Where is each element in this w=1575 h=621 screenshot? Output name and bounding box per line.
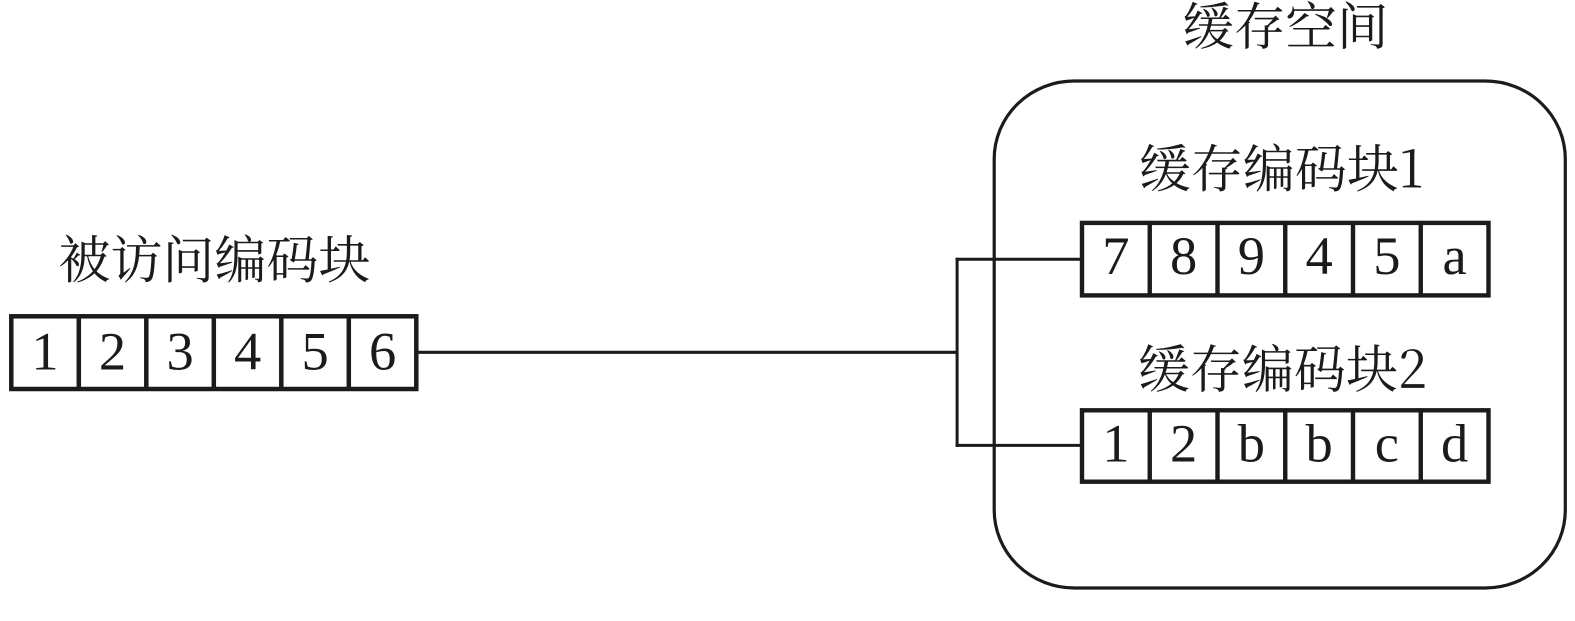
- accessed coding block row (cells): [11, 316, 416, 389]
- cell chars 7 8 9 4 5 a: [1102, 225, 1466, 286]
- svg-text:5: 5: [301, 321, 328, 382]
- svg-text:c: c: [1375, 413, 1399, 474]
- label: cache coding block 2 (缓存编码块2): [1140, 344, 1424, 392]
- svg-text:3: 3: [166, 321, 193, 382]
- svg-text:7: 7: [1102, 225, 1129, 286]
- svg-text:9: 9: [1238, 225, 1265, 286]
- label: cache coding block 1 (缓存编码块1): [1141, 143, 1421, 191]
- wire: from accessed block to bracket: [416, 351, 959, 354]
- svg-text:4: 4: [1305, 225, 1332, 286]
- svg-text:6: 6: [369, 321, 396, 382]
- svg-text:2: 2: [99, 321, 126, 382]
- svg-text:b: b: [1305, 413, 1332, 474]
- svg-text:b: b: [1238, 413, 1265, 474]
- svg-text:1: 1: [1102, 413, 1129, 474]
- wire: bracket to cache block 2: [956, 444, 1083, 447]
- cell chars 1 2 b b c d: [1102, 413, 1468, 474]
- svg-text:2: 2: [1170, 413, 1197, 474]
- svg-text:d: d: [1441, 413, 1468, 474]
- label: cache space (缓存空间): [1185, 1, 1385, 49]
- cache coding block 2 row (cells): [1082, 410, 1489, 481]
- cache space container (rounded box): [994, 81, 1565, 588]
- bracket vertical wire: [956, 258, 959, 447]
- wire: bracket to cache block 1: [956, 258, 1083, 261]
- svg-text:8: 8: [1170, 225, 1197, 286]
- cache coding block 1 row (cells): [1082, 223, 1489, 296]
- cell digits 1-6: [31, 321, 396, 382]
- svg-text:a: a: [1442, 225, 1466, 286]
- svg-text:1: 1: [31, 321, 58, 382]
- svg-text:4: 4: [234, 321, 261, 382]
- label: accessed coding block (被访问编码块): [60, 234, 369, 282]
- svg-text:5: 5: [1373, 225, 1400, 286]
